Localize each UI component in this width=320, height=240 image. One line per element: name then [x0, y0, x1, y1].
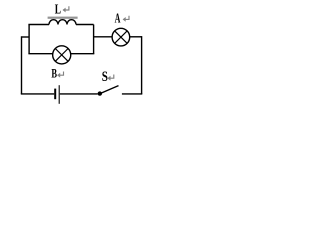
lamp A: [112, 28, 130, 46]
wire: parallel block left vertical: [28, 25, 30, 54]
wire: bottom left (to battery): [21, 93, 54, 95]
svg-text:L: L: [55, 2, 61, 17]
lamp (unnamed, bottom branch of parallel block): [53, 46, 71, 64]
return mark after B: [57, 72, 63, 78]
svg-text:A: A: [115, 11, 121, 26]
wire: top branch left segment: [28, 24, 49, 26]
wire: parallel block right vertical: [93, 25, 95, 54]
svg-text:B: B: [51, 68, 57, 81]
wire: left stub from outer loop to parallel block: [22, 36, 30, 38]
wire: outer right vertical: [141, 36, 143, 94]
wire: feed to lamp A: [94, 36, 113, 38]
wire: bottom branch right segment: [71, 53, 95, 55]
return mark after S: [107, 75, 113, 81]
wire: battery to switch: [60, 93, 98, 95]
wire: top branch right segment: [76, 24, 94, 26]
switch S: pivot dot: [98, 91, 102, 95]
return mark after A: [123, 16, 129, 22]
switch S: blade: [101, 86, 119, 94]
svg-text:S: S: [102, 68, 108, 85]
return mark after L: [63, 6, 69, 12]
wire: outer left vertical: [21, 36, 23, 94]
battery B: short thick plate: [54, 89, 56, 100]
inductor L coil: [49, 20, 76, 25]
wire: bottom branch left segment: [28, 53, 52, 55]
inductor L core bar: [48, 17, 78, 19]
wire: lamp A to top-right corner: [130, 36, 142, 38]
battery B: long thin plate: [58, 85, 60, 104]
wire: bottom right (corner to switch): [122, 93, 142, 95]
